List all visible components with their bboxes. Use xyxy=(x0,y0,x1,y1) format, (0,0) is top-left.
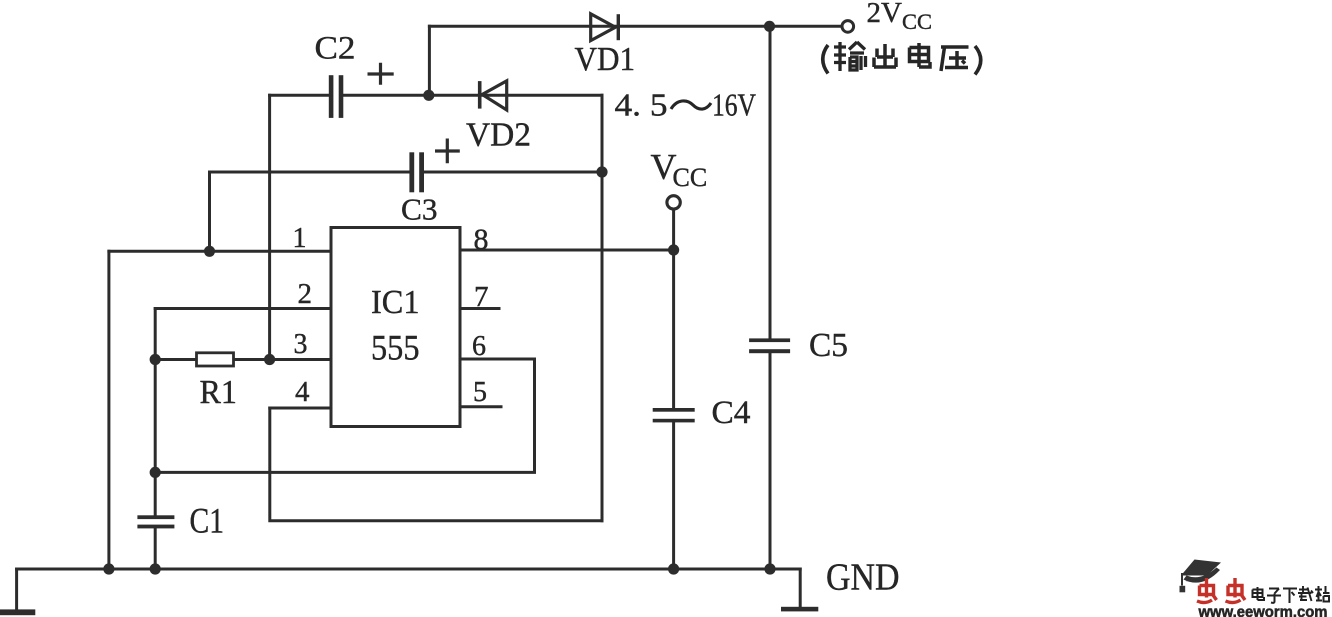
svg-text:VD2: VD2 xyxy=(466,117,531,154)
wire C2 left drop x269.6 to pin3 node xyxy=(268,95,271,359)
svg-text:8: 8 xyxy=(474,223,489,256)
diode VD2 xyxy=(478,81,507,110)
capacitor C2 plates xyxy=(329,75,344,118)
wire C2/VD2 row right segment through VD2 xyxy=(343,94,602,97)
label (output voltage) Chinese fullwidth close paren xyxy=(975,46,981,75)
pin 6 xyxy=(472,331,486,362)
label VD1 xyxy=(575,41,636,78)
wire pin3 row left of R1 xyxy=(155,358,196,361)
wire left vertical x155 upper (pin2 to C1) xyxy=(154,309,157,516)
label C3 xyxy=(401,192,438,227)
svg-text:2VCC: 2VCC xyxy=(867,0,932,34)
pin 2 xyxy=(298,278,313,310)
label (output voltage) Chinese char 电 xyxy=(910,43,931,67)
svg-text:16V: 16V xyxy=(712,87,756,123)
svg-text:5: 5 xyxy=(473,377,487,408)
wire C2/VD2 row left segment xyxy=(270,94,330,97)
watermark black char 载 xyxy=(1298,586,1313,601)
label C4 xyxy=(712,395,751,431)
wire pin4 return loop bottom xyxy=(270,408,602,521)
capacitor C1 plates xyxy=(137,515,174,528)
wire 2Vcc vertical lower (C5 to ground bus) xyxy=(769,353,772,569)
wire Vcc vertical lower (C4 to ground bus) xyxy=(672,422,675,569)
wire top rail from C2 riser to 2Vcc terminal xyxy=(429,25,841,28)
wire pin4 stub xyxy=(270,407,331,410)
capacitor C5 plates xyxy=(749,338,790,353)
svg-text:4. 5: 4. 5 xyxy=(615,87,668,123)
label VD2 xyxy=(466,117,531,154)
capacitor C3 plates xyxy=(409,152,424,192)
capacitor C4 plates xyxy=(653,408,695,422)
pin 8 xyxy=(474,223,489,256)
svg-text:7: 7 xyxy=(474,281,489,313)
svg-text:C2: C2 xyxy=(315,31,356,67)
wire pin1 row xyxy=(109,250,331,253)
label Vcc xyxy=(651,147,708,193)
svg-text:C5: C5 xyxy=(809,327,848,364)
label 2Vcc xyxy=(867,0,932,34)
label 555 xyxy=(371,328,420,368)
wire far left vertical x109 xyxy=(107,251,110,569)
wire Vcc vertical upper (terminal to C4) xyxy=(672,209,675,408)
wire pin7 stub xyxy=(460,307,499,310)
pin 4 xyxy=(295,376,310,408)
pin 1 xyxy=(293,223,307,254)
svg-text:3: 3 xyxy=(294,329,308,360)
svg-text:6: 6 xyxy=(472,331,486,362)
watermark red char 虫 (2nd) xyxy=(1226,578,1246,603)
wire C3 row left segment xyxy=(210,171,410,174)
capacitor C2 polarity plus xyxy=(368,63,394,85)
svg-text:VCC: VCC xyxy=(651,147,708,193)
wire left ground drop xyxy=(15,569,18,610)
pin 5 xyxy=(473,377,487,408)
resistor R1 xyxy=(197,353,234,366)
pin 3 xyxy=(294,329,308,360)
svg-text:C1: C1 xyxy=(190,501,225,541)
wire C3 left drop to pin1 node xyxy=(208,172,211,251)
watermark black char 站 xyxy=(1315,586,1330,602)
label (output voltage) Chinese char 出 xyxy=(874,44,896,67)
label (output voltage) Chinese char 压 xyxy=(941,47,969,71)
svg-text:VD1: VD1 xyxy=(575,41,636,78)
svg-text:4: 4 xyxy=(295,376,310,408)
svg-text:GND: GND xyxy=(826,557,900,599)
svg-text:IC1: IC1 xyxy=(371,284,420,321)
ground symbol right xyxy=(781,607,818,612)
wire pin5 stub xyxy=(460,405,501,408)
wire C2 riser vertical xyxy=(428,26,431,95)
label 4.5~16V xyxy=(615,87,757,123)
watermark black char 下 xyxy=(1283,589,1297,604)
watermark black char 子 xyxy=(1267,589,1281,603)
wire ground bus xyxy=(17,568,801,571)
label GND xyxy=(826,557,900,599)
watermark gray url www.eeworm.com xyxy=(1197,602,1327,617)
node junction pin3 / x155 xyxy=(150,354,161,365)
svg-text:555: 555 xyxy=(371,328,420,368)
node junction bus / Vcc vertical xyxy=(668,563,679,574)
wire right loop vertical x602 (VD2 to pin4 return) xyxy=(601,95,604,520)
terminal 2Vcc circle xyxy=(842,21,854,33)
wire pin3 row right of R1 xyxy=(234,358,332,361)
label C5 xyxy=(809,327,848,364)
capacitor C3 polarity plus xyxy=(435,139,460,164)
label (output voltage) Chinese char 输 xyxy=(834,42,866,71)
node junction pin8 / Vcc vertical xyxy=(668,244,679,255)
pin 7 xyxy=(474,281,489,313)
node junction at C2/VD2/riser xyxy=(423,90,434,101)
svg-text:www.eeworm.com: www.eeworm.com xyxy=(1197,602,1327,617)
wire pin8 row to Vcc node xyxy=(460,249,674,252)
wire left vertical x155 lower (C1 to ground bus) xyxy=(154,529,157,570)
node junction pin3 / C2 drop xyxy=(264,354,275,365)
svg-text:2: 2 xyxy=(298,278,313,310)
wire 2Vcc vertical upper (top rail to C5) xyxy=(769,26,772,338)
node junction bus / x109 xyxy=(103,563,114,574)
node junction top rail / 2Vcc vertical xyxy=(764,21,775,32)
watermark eeworm logo graduation cap xyxy=(1180,560,1222,593)
label C2 xyxy=(315,31,356,67)
watermark black char 电 xyxy=(1253,587,1265,600)
wire right ground drop xyxy=(799,569,802,608)
diode VD1 xyxy=(591,14,620,41)
node junction C3 right / x602 xyxy=(596,166,607,177)
svg-text:C3: C3 xyxy=(401,192,438,227)
label (output voltage) Chinese fullwidth open paren xyxy=(823,45,828,74)
label C1 xyxy=(190,501,225,541)
node junction bus / x155 xyxy=(150,563,161,574)
wire pin2 row xyxy=(155,307,331,310)
label R1 xyxy=(200,374,238,411)
wire pin6 loop to node on x155 xyxy=(155,359,534,472)
terminal Vcc circle xyxy=(667,196,680,209)
label IC1 xyxy=(371,284,420,321)
svg-text:C4: C4 xyxy=(712,395,751,431)
node junction pin6 loop / x155 xyxy=(150,467,161,478)
svg-text:1: 1 xyxy=(293,223,307,254)
ground symbol left xyxy=(0,609,35,615)
IC op U1 555 box xyxy=(331,228,460,427)
wire C3 row right segment xyxy=(424,171,602,174)
node junction pin1 / C3 drop xyxy=(204,246,215,257)
watermark red char 虫 (1st) xyxy=(1197,578,1217,603)
svg-text:R1: R1 xyxy=(200,374,238,411)
node junction bus / 2Vcc vertical xyxy=(764,563,775,574)
